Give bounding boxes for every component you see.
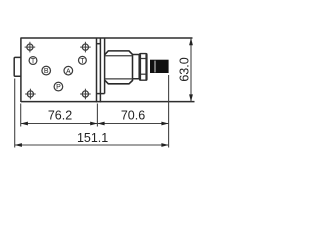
- node tube section: [133, 55, 140, 79]
- wire top outline / 63.0 top extension line: [21, 37, 193, 39]
- node mounting plate edge: [97, 38, 101, 103]
- wire dimension line 63.0 vertical: [190, 38, 192, 102]
- node port P: [54, 82, 63, 91]
- svg-text:70.6: 70.6: [121, 109, 145, 123]
- svg-text:P: P: [56, 84, 61, 91]
- svg-text:T: T: [80, 58, 85, 65]
- svg-text:T: T: [31, 58, 36, 65]
- node hole top-right: [80, 42, 91, 53]
- wire dimension line 151.1: [15, 144, 169, 146]
- wire dimension line 76.2: [21, 123, 98, 125]
- node hex nut: [140, 54, 147, 81]
- svg-text:76.2: 76.2: [48, 109, 72, 123]
- node hole bottom-left: [25, 89, 36, 100]
- svg-text:A: A: [66, 68, 71, 75]
- node port T right: [79, 56, 87, 64]
- svg-text:151.1: 151.1: [77, 131, 108, 145]
- node valve body hex: [105, 51, 133, 84]
- node knob black: [150, 60, 169, 73]
- node port T left: [29, 57, 37, 65]
- node hole top-left: [25, 42, 36, 53]
- node left tab: [14, 57, 21, 76]
- wire extension line far left: [14, 79, 16, 148]
- node hole bottom-right: [80, 89, 91, 100]
- wire bottom outline / 63.0 bottom extension line: [21, 101, 195, 103]
- node block: valve mounting face rectangle: [21, 38, 97, 103]
- wire extension line right: [168, 75, 170, 148]
- svg-text:B: B: [44, 68, 49, 75]
- wire dimension line 70.6: [97, 123, 168, 125]
- node port A: [64, 66, 73, 75]
- wire extension line block left: [20, 104, 22, 127]
- node port B: [42, 66, 51, 75]
- svg-text:63.0: 63.0: [177, 57, 191, 81]
- wire body flat line upper: [105, 55, 133, 57]
- wire extension line middle: [96, 104, 98, 127]
- node flange: [97, 38, 105, 94]
- wire body flat line lower: [105, 78, 133, 80]
